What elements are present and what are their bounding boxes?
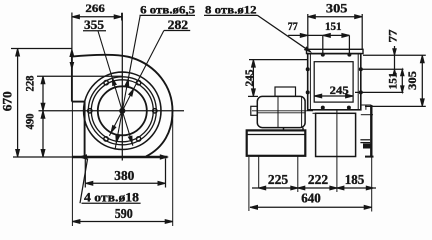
- svg-text:305: 305: [405, 71, 419, 90]
- svg-text:266: 266: [85, 1, 105, 15]
- dimension 490: [42, 111, 44, 157]
- motor slide base: [247, 130, 306, 155]
- 6 bolt holes on bolt circle: [153, 109, 157, 113]
- dimension 77 (top): [288, 34, 323, 36]
- dimension 590: [71, 102, 73, 226]
- base hole mark left: [80, 155, 87, 159]
- dimension 151 (right): [401, 69, 403, 92]
- dimension 228: [37, 75, 123, 77]
- diameter line for 6 holes: [115, 15, 140, 149]
- horizontal centerline: [39, 110, 185, 112]
- svg-text:77: 77: [386, 30, 400, 43]
- diameter line for 355: [98, 31, 133, 146]
- base (ground) line: [72, 156, 168, 159]
- svg-text:185: 185: [345, 173, 365, 188]
- dimension 245 (left): [249, 59, 309, 61]
- motor shaft stub: [251, 106, 257, 115]
- diameter line for 282: [109, 31, 163, 136]
- motor end-bell lines: [277, 97, 279, 127]
- dimension 266: [71, 13, 73, 57]
- svg-text:245: 245: [244, 69, 256, 86]
- svg-text:490: 490: [23, 114, 37, 130]
- motor shaft line: [258, 112, 305, 114]
- motor studs: [283, 128, 285, 131]
- svg-text:228: 228: [23, 76, 37, 92]
- support pedestal: [316, 113, 356, 156]
- inlet collar circle: [91, 80, 153, 142]
- flange hole ticks: [322, 35, 324, 56]
- casing hole dots: [306, 68, 309, 71]
- bottom chain extension lines: [258, 156, 260, 188]
- casing bottom bracket: [361, 104, 368, 106]
- svg-text:225: 225: [268, 173, 288, 188]
- svg-text:222: 222: [308, 173, 328, 188]
- leg top connectors: [361, 104, 372, 106]
- svg-text:245: 245: [330, 83, 349, 97]
- dimension 151 (top): [323, 34, 350, 36]
- base hole mark right: [160, 155, 167, 159]
- casing inner square: [314, 62, 353, 102]
- svg-text:77: 77: [288, 19, 298, 33]
- leg bracket: [360, 139, 370, 141]
- dimension 305 (top): [307, 14, 309, 49]
- base line extension: [13, 156, 72, 158]
- svg-text:305: 305: [326, 2, 348, 16]
- bolt circle: [88, 77, 156, 145]
- motor terminal box: [275, 87, 296, 96]
- outlet flange plate (side view): [307, 49, 364, 53]
- slide base rail line: [247, 134, 306, 136]
- right chain extension lines: [363, 54, 426, 56]
- dimension 670: [11, 48, 73, 50]
- edge junction arrow: [70, 50, 74, 57]
- svg-text:151: 151: [387, 72, 399, 89]
- svg-text:355: 355: [84, 18, 104, 32]
- svg-text:4 отв.ø18: 4 отв.ø18: [84, 191, 139, 205]
- motor axis line: [252, 110, 313, 112]
- dimension 222: [298, 187, 337, 189]
- center point blob: [120, 108, 125, 113]
- housing left edge: [71, 56, 73, 102]
- svg-text:640: 640: [301, 191, 321, 206]
- inlet circle: [98, 86, 147, 135]
- vertical centerline: [121, 13, 123, 161]
- svg-text:151: 151: [325, 21, 342, 33]
- fan scroll (volute) outline, front view: [72, 55, 173, 157]
- dimension 245 (casing depth): [314, 95, 353, 97]
- dimension 305 (right): [421, 55, 423, 106]
- flange outer circle: [84, 72, 161, 149]
- svg-text:380: 380: [114, 168, 134, 183]
- dimension 185: [337, 187, 376, 189]
- svg-text:590: 590: [115, 206, 133, 221]
- right support leg: [370, 105, 372, 157]
- scroll casing outer square: [308, 54, 361, 110]
- motor body: [257, 96, 305, 127]
- housing left edge step: [72, 101, 85, 103]
- dimension 380: [84, 159, 86, 188]
- casing side flange lines: [309, 54, 311, 110]
- dimension 77 (right): [394, 46, 396, 69]
- dimension 640: [250, 206, 372, 208]
- svg-text:670: 670: [0, 91, 15, 111]
- dimension 225: [252, 187, 298, 189]
- pedestal top lip: [313, 112, 316, 114]
